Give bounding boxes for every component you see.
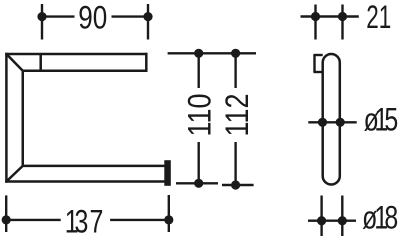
dim 110: top dot <box>194 49 203 58</box>
svg-text:3: 3 <box>75 205 89 240</box>
front view: bottom-left mitre diagonal <box>6 166 22 182</box>
dim 90: left dot <box>37 12 46 21</box>
side view: wall tab top edge <box>313 54 322 56</box>
dim 110: bottom extension line <box>176 182 218 184</box>
front view: inner left edge <box>22 71 25 166</box>
dim ø15: left dot <box>318 118 327 127</box>
dim 112: top dot <box>231 49 240 58</box>
dim 137: right extension line <box>168 195 170 232</box>
dim 137: dimension line left part <box>6 219 61 221</box>
front view: bottom outer edge <box>5 180 164 183</box>
side view: wall tab bottom edge <box>313 71 322 73</box>
dim 110: vertical dimension line upper part <box>197 53 199 88</box>
front view: top outer edge <box>5 53 147 56</box>
dim ø18: dimension line <box>308 219 356 221</box>
front view: top-left mitre diagonal <box>6 54 22 71</box>
dim 90: right dot <box>143 12 152 21</box>
dim ø15: right dot <box>336 118 345 127</box>
svg-text:110: 110 <box>182 94 218 137</box>
dim 112: bottom dot <box>231 180 240 189</box>
dim 137: right dot <box>164 215 173 224</box>
svg-text:112: 112 <box>219 94 255 137</box>
dim 112: bottom extension line <box>222 184 254 186</box>
dim 21: left dot <box>311 12 320 21</box>
svg-text:21: 21 <box>366 0 391 35</box>
front view: bottom arm inner edge <box>23 165 165 168</box>
dim 90: dimension line right part <box>112 15 149 17</box>
dim 21: left extension line <box>314 5 316 40</box>
dim 110/112: top extension line <box>168 52 256 54</box>
dim 90: left extension line <box>41 4 43 40</box>
dim ø15: dimension line <box>308 121 356 123</box>
svg-text:7: 7 <box>90 205 104 240</box>
side view: pill outline <box>323 54 340 185</box>
front view: bottom arm end cap <box>164 160 171 186</box>
dim 21: right dot <box>338 12 347 21</box>
dim ø18: right dot <box>338 216 347 225</box>
dim 137: dimension line right part <box>110 219 169 221</box>
svg-text:8: 8 <box>384 201 398 237</box>
dim 137: left extension line <box>5 195 7 232</box>
front view: top arm inner edge <box>23 69 148 72</box>
dim ø18: left dot <box>317 216 326 225</box>
dim 90: right extension line <box>147 4 149 40</box>
dim 112: vertical dimension line lower part <box>234 142 236 185</box>
dim 21: right extension line <box>341 5 343 40</box>
svg-text:5: 5 <box>384 103 398 139</box>
dim 112: vertical dimension line upper part <box>234 53 236 88</box>
dim 110: vertical dimension line lower part <box>197 142 199 183</box>
dim 21: dimension line <box>301 15 359 17</box>
front view: bend tangent tick on top arm <box>39 54 42 71</box>
front view: top arm right end <box>145 53 148 72</box>
svg-text:90: 90 <box>78 0 107 36</box>
dim 90: dimension line left part <box>42 15 75 17</box>
dim ø18: left extension line <box>320 196 322 237</box>
side view: wall tab left edge <box>313 55 315 72</box>
front view: outer left edge of bracket <box>5 53 8 183</box>
dim 137: left dot <box>2 215 11 224</box>
dim ø18: right extension line <box>341 196 343 237</box>
dim 110: bottom dot <box>194 179 203 188</box>
